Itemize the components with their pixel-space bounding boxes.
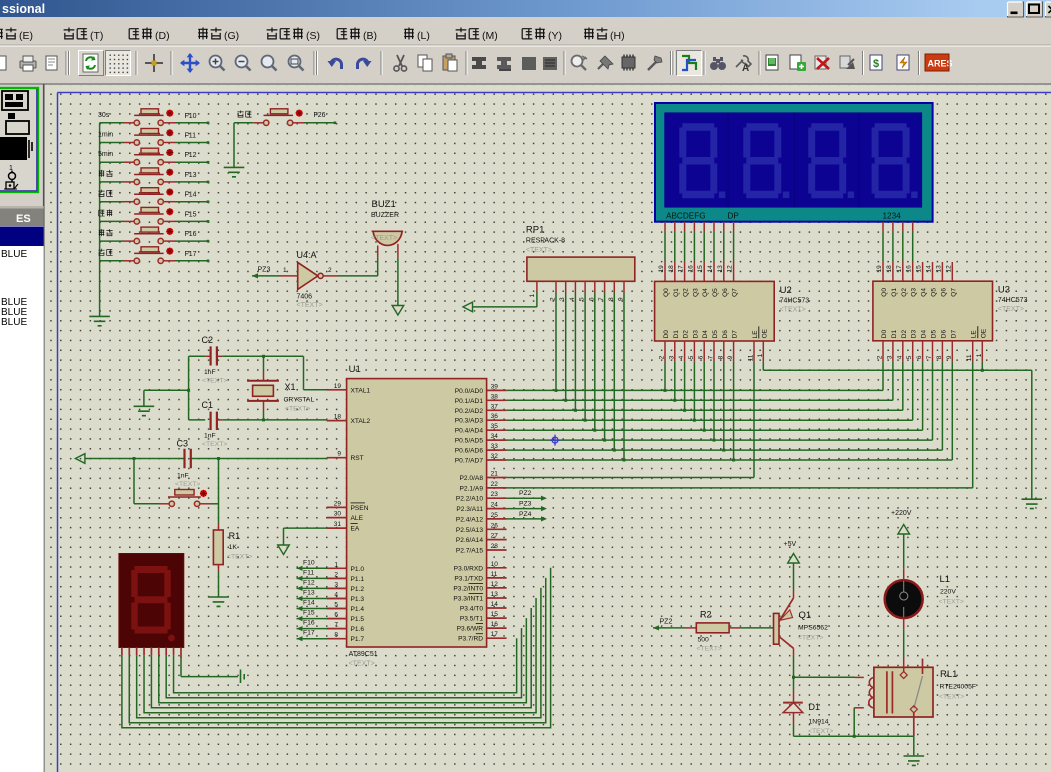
- wire U2 D5 to P0.5: [713, 362, 716, 442]
- wire net F13: [175, 172, 209, 183]
- svg-text:RL1: RL1: [940, 669, 957, 680]
- svg-text:D4: D4: [921, 330, 928, 339]
- wire display digit 4 to U3 Q3: [906, 222, 913, 282]
- wire U3 D2 to P0.2: [902, 361, 904, 410]
- wire RST to reset button: [134, 459, 169, 504]
- svg-text:3: 3: [668, 355, 675, 359]
- svg-text:Q0: Q0: [881, 288, 888, 297]
- svg-text:PZ4: PZ4: [519, 511, 532, 518]
- svg-text:17: 17: [678, 265, 685, 273]
- svg-text:P3.3/INT1: P3.3/INT1: [453, 596, 483, 603]
- wire net F16: [175, 231, 209, 242]
- svg-text:P2.4/A12: P2.4/A12: [456, 516, 483, 523]
- svg-text:30s: 30s: [98, 112, 110, 119]
- wire RP1 pin2 to P0.0: [555, 293, 558, 392]
- svg-text:<TEXT>: <TEXT>: [371, 235, 397, 242]
- latch U2 74HC573: [655, 281, 810, 361]
- wire lamp to relay: [903, 618, 905, 673]
- svg-text:+5V: +5V: [784, 541, 797, 548]
- svg-text:<TEXT>: <TEXT>: [780, 306, 806, 313]
- svg-text:PZ3: PZ3: [258, 267, 271, 274]
- wire display segment DP to U2 Q7: [727, 222, 734, 282]
- wire U3 D7 to P0.7: [951, 361, 953, 460]
- svg-text:C2: C2: [202, 335, 214, 345]
- svg-text:5: 5: [334, 602, 338, 609]
- svg-text:Q1: Q1: [673, 288, 680, 297]
- svg-text:3: 3: [334, 581, 338, 588]
- svg-text:D5: D5: [712, 330, 719, 339]
- svg-text:Q3: Q3: [692, 288, 699, 297]
- wire RP1 pin3 to P0.1: [564, 293, 567, 402]
- svg-text:(S): (S): [306, 30, 320, 42]
- wire switch F26 to ground: [234, 123, 253, 168]
- svg-text:2: 2: [334, 571, 338, 578]
- wire D1 bottom net: [794, 735, 914, 738]
- wire RP1 pin7 to P0.5: [603, 293, 606, 442]
- svg-text:11: 11: [748, 354, 755, 361]
- svg-text:5: 5: [688, 355, 695, 359]
- svg-text:XTAL2: XTAL2: [351, 418, 371, 425]
- svg-text:MPS6562: MPS6562: [798, 625, 828, 632]
- svg-text:8: 8: [936, 355, 943, 359]
- svg-text:2: 2: [877, 355, 884, 359]
- svg-text:Q5: Q5: [931, 288, 938, 297]
- svg-text:1min: 1min: [98, 132, 113, 139]
- wire U2 D7 to P0.7: [732, 362, 735, 462]
- wire R2 to Q1 base: [729, 627, 773, 629]
- ground xtal: [134, 406, 155, 415]
- switch S9 (F26): [237, 109, 304, 126]
- svg-text:1: 1: [334, 561, 338, 568]
- svg-text:C1: C1: [202, 400, 214, 410]
- svg-text:P0.1/AD1: P0.1/AD1: [455, 398, 484, 405]
- wire U3 D5 to P0.5: [932, 361, 934, 440]
- svg-text:D7: D7: [732, 330, 739, 339]
- svg-text:Q2: Q2: [901, 288, 908, 297]
- wire net PZ3 to U4 input: [252, 267, 298, 279]
- svg-text:P3.6/WR: P3.6/WR: [457, 626, 484, 633]
- svg-text:P0.6/AD6: P0.6/AD6: [455, 448, 484, 455]
- wire EA to down terminal: [278, 528, 327, 554]
- svg-text:<TEXT>: <TEXT>: [998, 306, 1024, 313]
- svg-text:P1.4: P1.4: [351, 606, 365, 613]
- svg-text:29: 29: [334, 500, 342, 507]
- svg-text:220V: 220V: [940, 589, 956, 596]
- svg-text:ssional: ssional: [2, 2, 45, 16]
- svg-text:(H): (H): [610, 30, 625, 42]
- svg-text:+220V: +220V: [891, 510, 912, 517]
- svg-text:12: 12: [945, 265, 952, 273]
- svg-text:<TEXT>: <TEXT>: [297, 302, 323, 309]
- svg-text:6: 6: [916, 355, 923, 359]
- svg-text:F10: F10: [303, 559, 315, 566]
- svg-text:P1.6: P1.6: [351, 626, 365, 633]
- svg-text:P0.5/AD5: P0.5/AD5: [455, 438, 484, 445]
- svg-text:7406: 7406: [297, 294, 313, 301]
- svg-text:F13: F13: [185, 172, 197, 179]
- wire net PZ3: [507, 501, 547, 512]
- svg-text:ES: ES: [16, 213, 31, 225]
- switch S8 (F17): [98, 247, 175, 264]
- wire net F14: [175, 192, 209, 203]
- pin U3 Q6 stub: [935, 262, 942, 281]
- wire display segment E to U2 Q4: [697, 222, 704, 282]
- wire RP1 pin6 to P0.4: [593, 293, 596, 432]
- wire display digit 2 to U3 Q1: [886, 222, 893, 282]
- latch U3 74HC573: [873, 281, 1028, 361]
- svg-text:LE: LE: [752, 330, 759, 339]
- svg-text:<TEXT>: <TEXT>: [526, 247, 552, 254]
- svg-text:F17: F17: [185, 251, 197, 258]
- resistor R1 1K: [213, 530, 252, 565]
- svg-text:18: 18: [886, 265, 893, 273]
- svg-text:1K: 1K: [229, 544, 238, 551]
- wire net F15: [175, 211, 209, 222]
- svg-text:D0: D0: [881, 330, 888, 339]
- wire net PZ4: [507, 511, 547, 522]
- svg-text:XTAL1: XTAL1: [351, 387, 371, 394]
- svg-text:DP: DP: [728, 212, 740, 221]
- svg-text:74HC573: 74HC573: [780, 297, 810, 304]
- wire RP1 pin5 to P0.3: [584, 293, 587, 422]
- svg-text:P0.3/AD3: P0.3/AD3: [455, 418, 484, 425]
- svg-text:13: 13: [717, 265, 724, 273]
- diode D1 1N914: [783, 677, 833, 736]
- svg-text:RP1: RP1: [526, 225, 544, 236]
- wire net F16 to P1.6: [297, 620, 347, 632]
- svg-text:15: 15: [697, 265, 704, 273]
- pin U3 Q7 stub: [945, 262, 952, 281]
- wire R1 to ground: [218, 565, 220, 597]
- svg-text:F12: F12: [185, 152, 197, 159]
- relay RL1 RTE24005F: [869, 659, 976, 737]
- switch S1 (F10): [98, 109, 175, 126]
- svg-text:BLUE: BLUE: [1, 249, 27, 260]
- capacitor C2 1nF: [202, 335, 228, 385]
- wire U2 LE to P2.0/A8: [507, 362, 754, 478]
- svg-text:(E): (E): [19, 30, 33, 42]
- svg-text:U2: U2: [780, 285, 792, 296]
- svg-text:(L): (L): [417, 30, 430, 42]
- svg-text:16: 16: [906, 265, 913, 273]
- svg-text:F12: F12: [303, 579, 315, 586]
- svg-text:Q0: Q0: [663, 288, 670, 297]
- svg-text:19: 19: [334, 383, 342, 390]
- svg-text:P3.2/INT0: P3.2/INT0: [453, 585, 483, 592]
- svg-text:30: 30: [334, 511, 342, 518]
- wire P0.7 bus line: [507, 459, 953, 461]
- wire net F14 to P1.4: [297, 600, 347, 612]
- svg-text:P3.1/TXD: P3.1/TXD: [454, 575, 483, 582]
- svg-text:<TEXT>: <TEXT>: [349, 661, 375, 668]
- svg-text:A: A: [742, 63, 749, 74]
- svg-text:(M): (M): [482, 30, 498, 42]
- svg-text:16: 16: [687, 265, 694, 273]
- svg-text:<TEXT>: <TEXT>: [808, 728, 833, 735]
- svg-text:Q7: Q7: [950, 288, 957, 297]
- svg-text:P2.0/A8: P2.0/A8: [460, 475, 484, 482]
- wire net PZ2: [507, 490, 547, 501]
- svg-text:F11: F11: [185, 133, 197, 140]
- svg-text:9: 9: [727, 355, 734, 359]
- svg-text:P1.2: P1.2: [351, 586, 365, 593]
- ground switch bank: [89, 316, 110, 325]
- svg-text:<TEXT>: <TEXT>: [939, 599, 964, 606]
- svg-text:RST: RST: [351, 455, 364, 462]
- svg-text:11: 11: [966, 354, 973, 361]
- svg-text:F16: F16: [303, 620, 315, 627]
- svg-text:P1.1: P1.1: [351, 576, 365, 583]
- svg-text:D1: D1: [891, 330, 898, 339]
- svg-text:1nF: 1nF: [204, 433, 216, 440]
- svg-text:38: 38: [491, 393, 499, 400]
- svg-text:P0.2/AD2: P0.2/AD2: [455, 408, 484, 415]
- svg-text:8: 8: [717, 355, 724, 359]
- svg-text:Q3: Q3: [911, 288, 918, 297]
- svg-text:10: 10: [491, 561, 499, 568]
- node origin marker: [550, 435, 561, 446]
- svg-text:F14: F14: [185, 192, 197, 199]
- switch reset button: [168, 490, 207, 507]
- wire Q1 collector down: [792, 648, 795, 678]
- wire display digit 1 to U3 Q0: [876, 222, 883, 282]
- svg-text:ALE: ALE: [351, 515, 364, 522]
- svg-text:1: 1: [283, 267, 287, 274]
- switch S6 (F15): [99, 207, 175, 224]
- svg-text:F17: F17: [303, 630, 315, 637]
- svg-text:8: 8: [334, 632, 338, 639]
- wire U3 D6 to P0.6: [941, 361, 943, 450]
- wire U2 OE / U3 OE to ground: [763, 361, 1032, 499]
- svg-text:P1.7: P1.7: [351, 636, 365, 643]
- svg-text:22: 22: [491, 481, 499, 488]
- wire U3 D1 to P0.1: [892, 361, 894, 400]
- wire Q1 emitter to +5V: [784, 541, 800, 598]
- wire U3 LE to P2.1/A9: [507, 361, 973, 488]
- svg-text:(B): (B): [363, 30, 377, 42]
- svg-text:<TEXT>: <TEXT>: [202, 441, 227, 448]
- svg-text:1nF: 1nF: [204, 369, 216, 376]
- svg-text:R1: R1: [229, 531, 241, 541]
- svg-text:14: 14: [707, 265, 714, 273]
- svg-text:R2: R2: [700, 610, 712, 620]
- ground relay: [904, 736, 925, 765]
- svg-text:25: 25: [491, 512, 499, 519]
- wire C1 to XTAL2: [222, 419, 326, 421]
- wire U2 D6 to P0.6: [722, 362, 725, 452]
- svg-text:24: 24: [491, 502, 499, 509]
- svg-text:P2.3/A11: P2.3/A11: [456, 506, 483, 513]
- resistor R2 500: [696, 610, 729, 653]
- svg-text:15: 15: [916, 265, 923, 273]
- svg-text:<TEXT>: <TEXT>: [697, 646, 722, 653]
- svg-text:U3: U3: [998, 285, 1010, 296]
- svg-text:13: 13: [491, 591, 499, 598]
- svg-text:Q7: Q7: [732, 288, 739, 297]
- wire net F26: [304, 112, 336, 124]
- svg-text:18: 18: [668, 265, 675, 273]
- svg-text:D1: D1: [673, 330, 680, 339]
- svg-text:P2.1/A9: P2.1/A9: [460, 485, 484, 492]
- svg-text:1234: 1234: [883, 212, 902, 221]
- wire U3 D0 to P0.0: [882, 361, 884, 390]
- svg-text:P3.7/RD: P3.7/RD: [458, 636, 483, 643]
- wire collector to relay coil: [794, 676, 864, 678]
- svg-text:1nF: 1nF: [177, 473, 189, 480]
- svg-text:F26: F26: [314, 112, 326, 119]
- svg-text:D6: D6: [722, 330, 729, 339]
- svg-text:RESPACK-8: RESPACK-8: [526, 238, 565, 245]
- display red 7-segment: [119, 554, 184, 648]
- svg-text:Q1: Q1: [891, 288, 898, 297]
- svg-text:<TEXT>: <TEXT>: [227, 554, 252, 561]
- wire net PZ2 to R2: [653, 619, 696, 631]
- svg-text:D5: D5: [931, 330, 938, 339]
- wire switch-bank bus to ground: [100, 123, 124, 317]
- wire P0.3 bus line: [507, 419, 913, 421]
- svg-text:1: 1: [976, 353, 983, 357]
- microcontroller U1 AT89C51: [327, 364, 507, 668]
- svg-text:12: 12: [727, 265, 734, 273]
- wire U2 D1 to P0.1: [673, 362, 676, 402]
- svg-text:Q4: Q4: [921, 288, 928, 297]
- wire U3 D4 to P0.4: [922, 361, 924, 430]
- pin U3 Q5 stub: [926, 262, 933, 281]
- wire P0.4 bus line: [507, 429, 923, 431]
- wire net F11: [175, 133, 209, 144]
- wire U3 D3 to P0.3: [912, 361, 914, 420]
- svg-text:L1: L1: [940, 574, 951, 585]
- svg-text:P3.5/T1: P3.5/T1: [460, 616, 483, 623]
- wire net F10 to P1.0: [297, 559, 347, 571]
- svg-text:(D): (D): [155, 30, 170, 42]
- svg-text:6: 6: [334, 612, 338, 619]
- svg-text:RTE24005F: RTE24005F: [940, 684, 977, 691]
- wire U2 D4 to P0.4: [703, 362, 706, 432]
- svg-text:2: 2: [659, 355, 666, 359]
- capacitor C3 1nF: [175, 439, 200, 489]
- svg-text:P2.5/A13: P2.5/A13: [456, 527, 483, 534]
- svg-text:F16: F16: [185, 231, 197, 238]
- wire display segment A to U2 Q0: [658, 222, 665, 282]
- svg-text:P2.6/A14: P2.6/A14: [456, 537, 483, 544]
- wire bus red display to P3: [122, 568, 551, 728]
- wire RP1 pin8 to P0.6: [613, 293, 616, 452]
- wire display segment F to U2 Q5: [707, 222, 714, 282]
- svg-text:U4:A: U4:A: [297, 250, 317, 260]
- svg-text:14: 14: [491, 601, 499, 608]
- wire buzzer right leg to terminal: [392, 244, 404, 315]
- svg-text:Q4: Q4: [702, 288, 709, 297]
- svg-text:11: 11: [491, 571, 498, 578]
- svg-text:<TEXT>: <TEXT>: [285, 406, 310, 413]
- svg-text:PSEN: PSEN: [351, 505, 369, 512]
- svg-text:14: 14: [926, 265, 933, 273]
- svg-text:BUZZER: BUZZER: [371, 212, 399, 219]
- svg-text:19: 19: [658, 265, 665, 273]
- wire display common pin: [181, 648, 244, 684]
- wire button to R1: [200, 459, 219, 531]
- svg-text:LE: LE: [971, 330, 978, 339]
- svg-text:F14: F14: [303, 600, 315, 607]
- svg-text:74HC573: 74HC573: [998, 297, 1028, 304]
- svg-text:AT89C51: AT89C51: [349, 651, 378, 658]
- svg-text:OE: OE: [980, 328, 987, 338]
- svg-text:Q1: Q1: [799, 610, 812, 621]
- svg-text:D2: D2: [901, 330, 908, 339]
- svg-text:17: 17: [896, 265, 903, 273]
- svg-text:<TEXT>: <TEXT>: [202, 378, 227, 385]
- svg-text:BUZ1: BUZ1: [372, 199, 396, 210]
- wire U2 D3 to P0.3: [693, 362, 696, 422]
- switch S2 (F11): [98, 129, 175, 146]
- svg-text:34: 34: [491, 433, 499, 440]
- svg-text:7: 7: [708, 355, 715, 359]
- pin U3 Q4 stub: [916, 262, 923, 281]
- svg-text:P1.5: P1.5: [351, 616, 365, 623]
- svg-text:ABCDEFG: ABCDEFG: [666, 212, 706, 221]
- wire P0.6 bus line: [507, 449, 943, 451]
- ground OE net: [1022, 499, 1043, 508]
- svg-text:35: 35: [491, 423, 499, 430]
- svg-text:4: 4: [334, 592, 338, 599]
- svg-text:X1: X1: [285, 382, 296, 392]
- wire net F17 to P1.7: [297, 630, 347, 642]
- wire display segment B to U2 Q1: [668, 222, 675, 282]
- svg-text:18: 18: [334, 414, 342, 421]
- svg-text:D2: D2: [683, 330, 690, 339]
- svg-text:17: 17: [491, 631, 499, 638]
- svg-text:5: 5: [906, 355, 913, 359]
- svg-text:28: 28: [491, 543, 499, 550]
- svg-text:32: 32: [491, 453, 499, 460]
- wire display segment D to U2 Q3: [687, 222, 694, 282]
- svg-text:9: 9: [337, 451, 341, 458]
- wire C2 left to C1: [189, 356, 206, 420]
- switch S7 (F16): [99, 227, 175, 244]
- svg-text:U1: U1: [349, 364, 361, 375]
- crystal X1: [247, 356, 314, 421]
- svg-text:39: 39: [491, 383, 499, 390]
- svg-text:D0: D0: [663, 330, 670, 339]
- svg-text:7: 7: [334, 622, 338, 629]
- svg-text:(G): (G): [224, 30, 239, 42]
- svg-text:15: 15: [491, 611, 499, 618]
- svg-text:9: 9: [946, 355, 953, 359]
- svg-text:P1.3: P1.3: [351, 596, 365, 603]
- svg-text:<TEXT>: <TEXT>: [798, 635, 823, 642]
- svg-text:2: 2: [328, 267, 332, 274]
- resistor pack RP1 RESPACK-8: [526, 225, 635, 302]
- wire U2 D0 to P0.0: [664, 362, 667, 392]
- svg-text:F15: F15: [185, 211, 197, 218]
- transistor Q1 MPS6562: [774, 598, 829, 648]
- svg-text:19: 19: [876, 265, 883, 273]
- svg-text:D3: D3: [911, 330, 918, 339]
- wire U4 output to buzzer: [323, 246, 378, 276]
- svg-text:1: 1: [757, 353, 764, 357]
- svg-text:4: 4: [678, 355, 685, 359]
- wire net F10: [175, 113, 209, 124]
- svg-text:D6: D6: [940, 330, 947, 339]
- svg-text:P2.7/A15: P2.7/A15: [456, 548, 483, 555]
- svg-text:<TEXT>: <TEXT>: [939, 694, 964, 701]
- switch S3 (F12): [98, 148, 175, 165]
- svg-text:Q6: Q6: [722, 288, 729, 297]
- svg-text:Q6: Q6: [940, 288, 947, 297]
- lamp L1 220V: [885, 574, 964, 618]
- wire C2 to XTAL1: [222, 355, 326, 390]
